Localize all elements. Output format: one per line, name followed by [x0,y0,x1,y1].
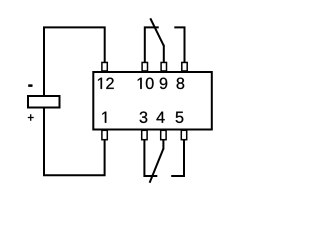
switch S1 second throw contact lead from pin 8 [174,27,184,62]
pin 1 terminal box [102,130,107,139]
switch S2 fixed contact lead from pin 3 [144,140,157,176]
wire battery negative terminal to pin 12 (top-left rail) [44,27,105,96]
pin 3 terminal box [142,130,147,139]
pin 5 terminal box [181,130,186,139]
switch S2 blade (pole at pin 4) [150,149,164,183]
switch S2 second throw contact lead from pin 5 [171,140,184,176]
battery B1 [28,96,60,108]
pin 9 terminal box [161,62,166,70]
pin label 1 [102,112,106,123]
pin 8 terminal box [182,62,187,70]
pin label 5 [176,112,184,123]
pin label 12 [98,78,114,89]
pin label 8 [177,78,185,89]
battery positive label + [28,114,34,121]
pin label 9 [160,78,167,89]
wire battery positive terminal to pin 1 (bottom-left rail) [44,108,105,176]
wire pin 4 lead [162,140,164,149]
switch S1 fixed contact lead from pin 10 [145,27,159,62]
pin 4 terminal box [161,130,166,139]
pin label 3 [140,111,148,122]
pin 10 terminal box [142,62,147,70]
battery negative label - [28,85,32,87]
IC U1 body [93,72,212,130]
switch S1 blade (pole at pin 9) [150,18,164,46]
wire pin 9 lead [163,45,165,63]
pin 12 terminal box [102,62,107,70]
pin label 4 [156,112,164,123]
pin label 10 [138,78,154,89]
